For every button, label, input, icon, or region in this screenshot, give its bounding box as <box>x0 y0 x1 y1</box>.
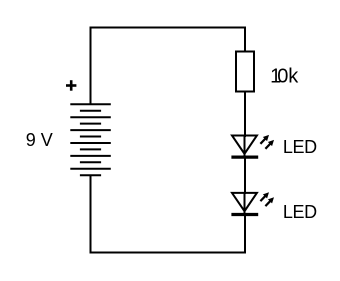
svg-text:k: k <box>288 66 299 88</box>
svg-text:0: 0 <box>277 66 288 88</box>
LED D2 arrow 1 <box>260 192 269 201</box>
label 10k <box>270 66 299 88</box>
LED D2 arrow 2 <box>265 197 274 206</box>
svg-text:LED: LED <box>283 202 317 222</box>
battery plus sign <box>66 80 76 91</box>
LED D1 arrow 1 <box>260 135 269 144</box>
wire left lower <box>90 175 92 253</box>
wire left upper <box>90 27 92 105</box>
LED D1 (top) <box>231 136 258 158</box>
wire LED1 to LED2 <box>244 157 246 194</box>
wire right upper <box>244 27 246 52</box>
svg-text:9 V: 9 V <box>26 130 53 150</box>
wire LED2 to bottom <box>244 215 246 254</box>
wire top <box>90 27 247 29</box>
wire bottom <box>90 252 247 254</box>
battery 9V <box>70 104 111 175</box>
wire resistor to LED1 <box>244 93 246 138</box>
resistor 10k <box>236 52 254 92</box>
svg-text:LED: LED <box>283 137 317 157</box>
LED D1 arrow 2 <box>265 140 274 149</box>
LED D2 (bottom) <box>231 193 258 215</box>
